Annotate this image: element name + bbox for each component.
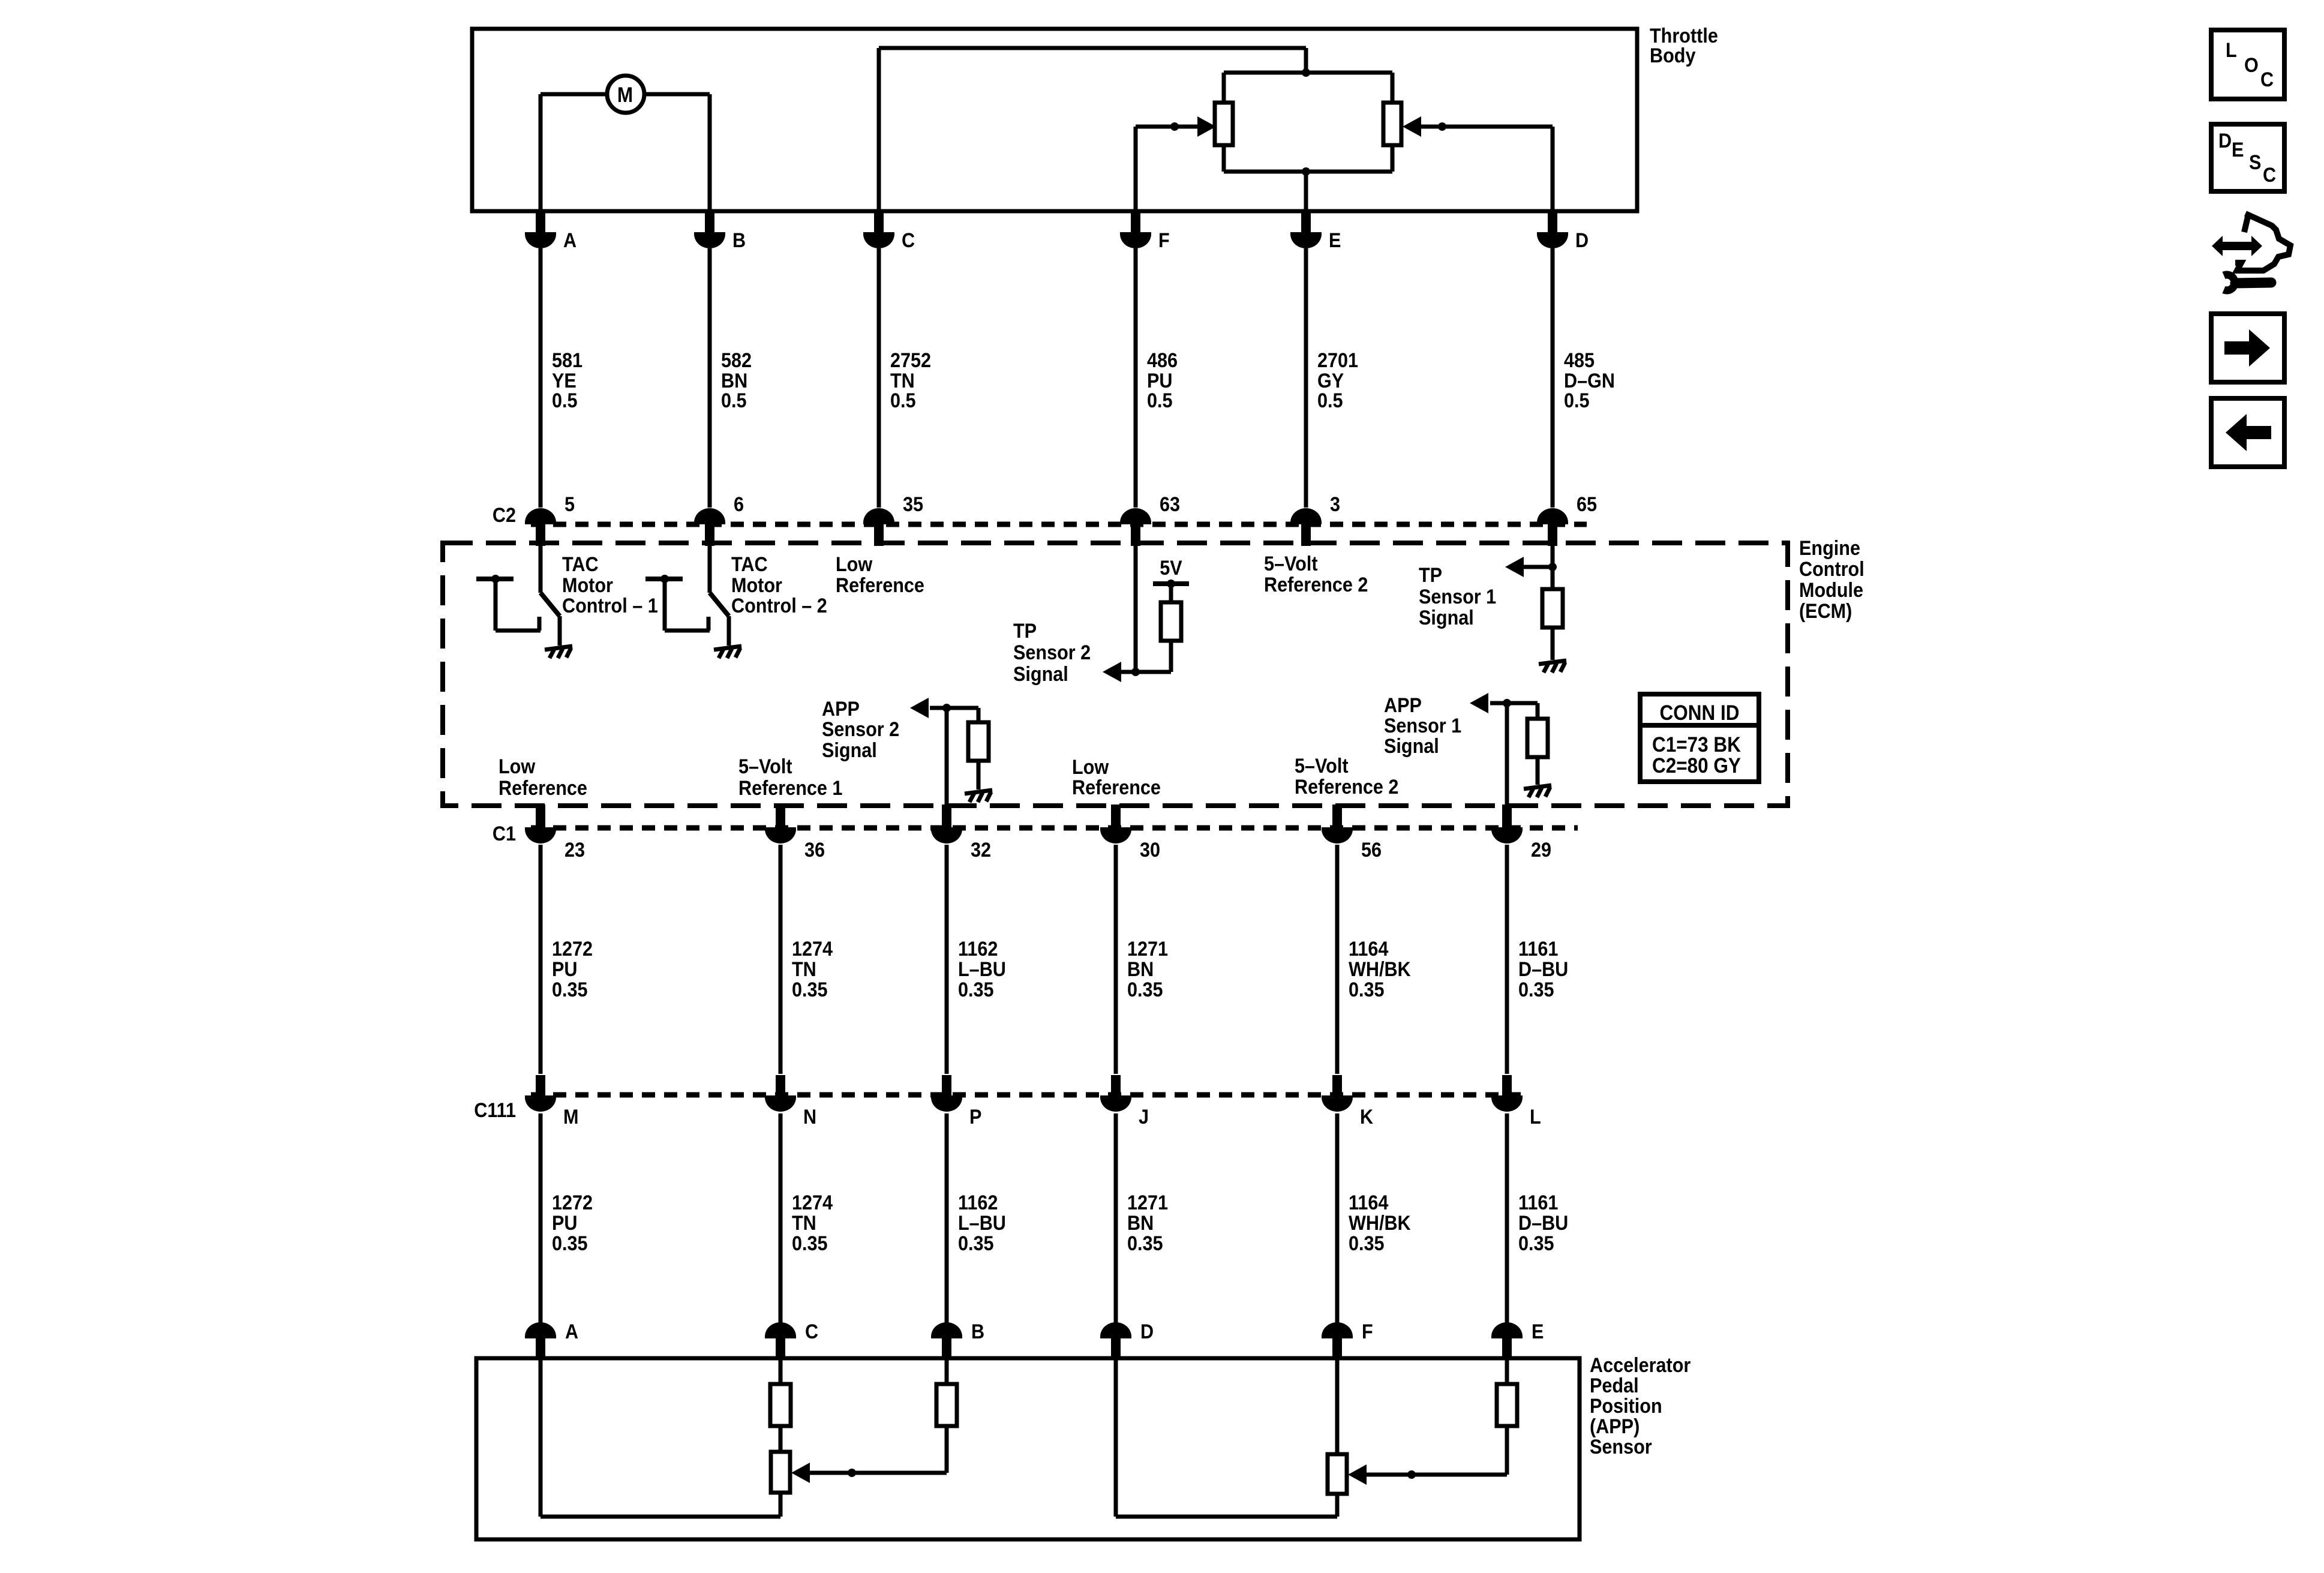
svg-text:32: 32 bbox=[971, 839, 991, 861]
wire C2 harness connector dotted line bbox=[531, 522, 1587, 527]
pin E throttle body connector bbox=[1301, 211, 1311, 233]
svg-text:Signal: Signal bbox=[1013, 663, 1068, 686]
wire TP sensor 1 signal from pin 65 bbox=[1551, 544, 1555, 589]
svg-text:D–BU: D–BU bbox=[1518, 958, 1568, 981]
pin E APP sensor connector bbox=[1491, 1322, 1523, 1338]
svg-text:TAC: TAC bbox=[562, 553, 599, 576]
svg-text:1274: 1274 bbox=[792, 938, 833, 960]
svg-text:Control – 1: Control – 1 bbox=[562, 595, 658, 617]
svg-text:1272: 1272 bbox=[552, 1191, 593, 1214]
svg-text:6: 6 bbox=[734, 493, 744, 516]
svg-text:Sensor: Sensor bbox=[1590, 1436, 1652, 1458]
svg-text:C: C bbox=[805, 1320, 818, 1343]
pin 30 ECM connector C1 bbox=[1111, 804, 1121, 828]
svg-text:M: M bbox=[617, 84, 633, 107]
svg-text:486: 486 bbox=[1147, 349, 1178, 372]
svg-text:Position: Position bbox=[1590, 1395, 1662, 1418]
pin A throttle body connector bbox=[536, 211, 545, 233]
svg-text:C: C bbox=[2260, 68, 2274, 91]
pin 56 ECM connector C1 bbox=[1332, 804, 1342, 828]
svg-text:D: D bbox=[1575, 229, 1589, 252]
pin A APP sensor connector bbox=[525, 1322, 556, 1338]
svg-text:C: C bbox=[902, 229, 915, 252]
icon connector view (housing outline) bbox=[2235, 214, 2290, 271]
svg-text:Reference: Reference bbox=[836, 574, 924, 597]
svg-text:Low: Low bbox=[836, 553, 873, 576]
svg-text:D: D bbox=[2218, 130, 2232, 152]
svg-text:5–Volt: 5–Volt bbox=[738, 755, 792, 778]
pin 35 ECM connector C2 bbox=[863, 508, 894, 524]
svg-text:1271: 1271 bbox=[1127, 938, 1168, 960]
svg-text:C2=80 GY: C2=80 GY bbox=[1652, 755, 1741, 778]
svg-text:Motor: Motor bbox=[562, 574, 613, 597]
resistor TP sensor 2 element bbox=[1391, 73, 1395, 103]
wire TP sensor 2 wiper to pin D bbox=[1551, 127, 1555, 211]
node TP sensor bottom rail junction bbox=[1224, 170, 1392, 174]
svg-text:(APP): (APP) bbox=[1590, 1415, 1640, 1438]
svg-text:0.5: 0.5 bbox=[721, 389, 747, 412]
pin 6 ECM connector C2 bbox=[694, 508, 725, 524]
svg-text:Module: Module bbox=[1799, 579, 1863, 602]
icon next button (right arrow) bbox=[2211, 314, 2284, 382]
pin B APP sensor connector bbox=[931, 1322, 962, 1338]
pin B throttle body connector bbox=[705, 211, 714, 233]
svg-text:Sensor 1: Sensor 1 bbox=[1419, 586, 1496, 608]
svg-text:Accelerator: Accelerator bbox=[1590, 1354, 1691, 1377]
wire motor right lead to pin B bbox=[645, 92, 710, 97]
pin 3 ECM connector C2 bbox=[1290, 508, 1322, 524]
resistor APP sensor 2 element bbox=[771, 1452, 790, 1493]
svg-text:C1=73 BK: C1=73 BK bbox=[1652, 734, 1741, 757]
wire APP sensor 1 signal from pin 29 bbox=[1505, 703, 1509, 806]
svg-text:E: E bbox=[2232, 139, 2244, 161]
wire APP sensor 1 low reference leg bbox=[1114, 1358, 1118, 1517]
wire low reference from pin C to TP sensors common bbox=[877, 48, 881, 211]
wire TP sensors low to pin E bbox=[1304, 172, 1308, 211]
svg-text:23: 23 bbox=[565, 839, 585, 861]
svg-text:0.5: 0.5 bbox=[890, 389, 916, 412]
svg-text:1274: 1274 bbox=[792, 1191, 833, 1214]
wire 1274 TN from ECM C1 to C111 bbox=[779, 845, 783, 1074]
svg-text:S: S bbox=[2249, 151, 2261, 174]
svg-text:485: 485 bbox=[1564, 349, 1595, 372]
wire 2701 GY from throttle body pin E to ECM C2 bbox=[1304, 248, 1308, 508]
wire 1162 L&#8211;BU from ECM C1 to C111 bbox=[945, 845, 949, 1074]
svg-text:Signal: Signal bbox=[1384, 735, 1439, 758]
svg-text:0.5: 0.5 bbox=[1564, 389, 1590, 412]
svg-text:BN: BN bbox=[1127, 1212, 1154, 1235]
svg-text:1162: 1162 bbox=[958, 1191, 998, 1214]
pin N connector C111 bbox=[776, 1075, 785, 1096]
svg-text:WH/BK: WH/BK bbox=[1349, 958, 1411, 981]
pin J connector C111 bbox=[1111, 1075, 1121, 1096]
svg-text:(ECM): (ECM) bbox=[1799, 600, 1852, 623]
wire 1164 WH/BK from C111 to APP sensor bbox=[1335, 1113, 1340, 1325]
svg-text:0.35: 0.35 bbox=[792, 978, 828, 1001]
wire 1161 D&#8211;BU from ECM C1 to C111 bbox=[1505, 845, 1509, 1074]
wire 1164 WH/BK from ECM C1 to C111 bbox=[1335, 845, 1340, 1074]
svg-text:F: F bbox=[1362, 1320, 1373, 1343]
svg-text:APP: APP bbox=[822, 698, 860, 721]
wire 582 BN from throttle body pin B to ECM C2 bbox=[708, 248, 712, 508]
svg-text:L–BU: L–BU bbox=[958, 1212, 1006, 1235]
svg-text:B: B bbox=[732, 229, 746, 252]
svg-text:Sensor 1: Sensor 1 bbox=[1384, 715, 1461, 737]
ground TAC motor control 1 bbox=[545, 646, 572, 658]
wire 1272 PU from C111 to APP sensor bbox=[539, 1113, 543, 1325]
svg-text:L: L bbox=[2226, 39, 2237, 62]
svg-text:J: J bbox=[1139, 1106, 1149, 1128]
pin C throttle body connector bbox=[874, 211, 884, 233]
resistor APP sensor 2 pull-down bbox=[977, 708, 981, 722]
resistor TP sensor 1 element bbox=[1222, 73, 1226, 103]
svg-text:Reference 2: Reference 2 bbox=[1295, 776, 1398, 798]
pin C APP sensor connector bbox=[765, 1322, 796, 1338]
svg-text:1164: 1164 bbox=[1349, 938, 1388, 960]
wire C1 harness connector dotted line bbox=[531, 825, 1578, 831]
pin 32 ECM connector C1 bbox=[942, 804, 951, 828]
pin P connector C111 bbox=[942, 1075, 951, 1096]
svg-text:35: 35 bbox=[903, 493, 923, 516]
CONN ID table bbox=[1640, 694, 1759, 782]
svg-text:O: O bbox=[2244, 54, 2259, 77]
svg-text:BN: BN bbox=[1127, 958, 1154, 981]
svg-text:Signal: Signal bbox=[822, 739, 877, 762]
pin 63 ECM connector C2 bbox=[1120, 508, 1151, 524]
pin 23 ECM connector C1 bbox=[536, 804, 545, 828]
svg-text:0.35: 0.35 bbox=[1349, 1232, 1385, 1255]
svg-text:L: L bbox=[1530, 1106, 1541, 1128]
resistor APP sensor 1 signal series bbox=[1505, 1358, 1509, 1384]
icon connector view (double arrow) bbox=[2212, 236, 2262, 256]
svg-text:65: 65 bbox=[1577, 493, 1597, 516]
wire APP sensor 2 low reference leg bbox=[539, 1358, 543, 1517]
wire TP sensor 1 wiper from pin F bbox=[1134, 127, 1138, 211]
pin F APP sensor connector bbox=[1322, 1322, 1353, 1338]
svg-text:5–Volt: 5–Volt bbox=[1264, 553, 1318, 575]
svg-text:Reference 1: Reference 1 bbox=[738, 777, 842, 800]
pin 36 ECM connector C1 bbox=[776, 804, 785, 828]
wire 485 D&#8211;GN from throttle body pin D to ECM C2 bbox=[1551, 248, 1555, 508]
svg-text:1162: 1162 bbox=[958, 938, 998, 960]
svg-text:N: N bbox=[803, 1106, 816, 1128]
svg-text:B: B bbox=[971, 1320, 984, 1343]
svg-text:Pedal: Pedal bbox=[1590, 1374, 1639, 1397]
svg-text:Reference: Reference bbox=[1072, 776, 1161, 799]
wire 1161 D&#8211;BU from C111 to APP sensor bbox=[1505, 1113, 1509, 1325]
svg-text:582: 582 bbox=[721, 349, 752, 372]
svg-text:Reference 2: Reference 2 bbox=[1264, 574, 1368, 596]
svg-text:56: 56 bbox=[1361, 839, 1382, 861]
svg-text:WH/BK: WH/BK bbox=[1349, 1212, 1411, 1235]
pin D APP sensor connector bbox=[1100, 1322, 1131, 1338]
wire 1271 BN from C111 to APP sensor bbox=[1114, 1113, 1118, 1325]
svg-text:Engine: Engine bbox=[1799, 537, 1860, 560]
ground TAC motor control 2 bbox=[714, 646, 741, 658]
svg-text:0.35: 0.35 bbox=[552, 1232, 588, 1255]
wire motor left lead to pin A bbox=[541, 92, 608, 97]
wire 1271 BN from ECM C1 to C111 bbox=[1114, 845, 1118, 1074]
resistor APP sensor 1 element bbox=[1335, 1358, 1340, 1454]
svg-text:C: C bbox=[2263, 164, 2276, 187]
svg-text:Reference: Reference bbox=[499, 777, 587, 800]
resistor APP sensor 2 series (5-volt ref 1 leg) bbox=[779, 1358, 783, 1384]
pin F throttle body connector bbox=[1131, 211, 1140, 233]
svg-text:TN: TN bbox=[792, 1212, 816, 1235]
pin M connector C111 bbox=[536, 1075, 545, 1096]
svg-text:E: E bbox=[1532, 1320, 1544, 1343]
svg-text:TP: TP bbox=[1013, 620, 1037, 643]
svg-text:Body: Body bbox=[1650, 44, 1695, 67]
icon connector view (wrench) bbox=[2224, 275, 2235, 290]
svg-text:Control – 2: Control – 2 bbox=[731, 595, 827, 617]
ground TP sensor 1 resistor bbox=[1539, 661, 1566, 673]
svg-text:APP: APP bbox=[1384, 694, 1422, 717]
resistor APP sensor 2 signal series bbox=[945, 1358, 949, 1384]
transistor TAC motor control 1 driver bbox=[539, 544, 543, 593]
svg-text:0.35: 0.35 bbox=[958, 978, 994, 1001]
svg-text:PU: PU bbox=[552, 1212, 577, 1235]
svg-text:Low: Low bbox=[1072, 756, 1109, 779]
wire APP sensor 1 wiper bbox=[1367, 1473, 1507, 1477]
svg-text:K: K bbox=[1360, 1106, 1374, 1128]
pin 65 ECM connector C2 bbox=[1537, 508, 1568, 524]
svg-text:0.35: 0.35 bbox=[552, 978, 588, 1001]
svg-text:PU: PU bbox=[552, 958, 577, 981]
svg-text:TP: TP bbox=[1419, 564, 1442, 587]
svg-text:TN: TN bbox=[792, 958, 816, 981]
svg-text:E: E bbox=[1329, 229, 1341, 252]
svg-text:0.5: 0.5 bbox=[1147, 389, 1173, 412]
svg-text:CONN ID: CONN ID bbox=[1660, 702, 1740, 725]
wire APP sensor 2 wiper bbox=[810, 1471, 947, 1475]
accelerator pedal position APP sensor box bbox=[476, 1358, 1580, 1539]
svg-text:0.5: 0.5 bbox=[552, 389, 578, 412]
svg-text:0.35: 0.35 bbox=[1518, 1232, 1554, 1255]
svg-text:2701: 2701 bbox=[1317, 349, 1358, 372]
icon back button (left arrow) bbox=[2211, 398, 2284, 467]
svg-text:TAC: TAC bbox=[731, 553, 768, 576]
svg-text:Signal: Signal bbox=[1419, 607, 1474, 629]
pin L connector C111 bbox=[1502, 1075, 1512, 1096]
svg-text:0.35: 0.35 bbox=[792, 1232, 828, 1255]
engine control module ECM dashed box bbox=[443, 543, 1788, 806]
transistor TAC motor control 2 driver bbox=[708, 544, 712, 593]
svg-text:1272: 1272 bbox=[552, 938, 593, 960]
icon DESC button bbox=[2211, 124, 2284, 191]
svg-text:0.35: 0.35 bbox=[1127, 978, 1163, 1001]
svg-text:1161: 1161 bbox=[1518, 1191, 1558, 1214]
svg-text:A: A bbox=[563, 229, 577, 252]
svg-text:D: D bbox=[1140, 1320, 1154, 1343]
icon LOC button bbox=[2211, 30, 2284, 99]
svg-text:F: F bbox=[1158, 229, 1170, 252]
svg-text:C1: C1 bbox=[493, 822, 516, 845]
svg-text:0.5: 0.5 bbox=[1317, 389, 1343, 412]
resistor TP sensor 1 pull-down bbox=[1542, 589, 1563, 628]
node TP sensor top rail junction bbox=[1224, 71, 1392, 75]
wire 581 YE from throttle body pin A to ECM C2 bbox=[539, 248, 543, 508]
wire 486 PU from throttle body pin F to ECM C2 bbox=[1134, 248, 1138, 508]
pin 29 ECM connector C1 bbox=[1502, 804, 1512, 828]
wire 1272 PU from ECM C1 to C111 bbox=[539, 845, 543, 1074]
svg-text:Motor: Motor bbox=[731, 574, 782, 597]
ground APP sensor 2 resistor bbox=[965, 790, 992, 802]
svg-text:36: 36 bbox=[804, 839, 825, 861]
svg-text:1161: 1161 bbox=[1518, 938, 1558, 960]
throttle body box bbox=[472, 29, 1637, 211]
svg-text:30: 30 bbox=[1140, 839, 1160, 861]
svg-text:Control: Control bbox=[1799, 558, 1864, 581]
svg-text:1271: 1271 bbox=[1127, 1191, 1168, 1214]
svg-text:0.35: 0.35 bbox=[1349, 978, 1385, 1001]
svg-text:P: P bbox=[969, 1106, 981, 1128]
svg-text:5V: 5V bbox=[1160, 557, 1182, 580]
svg-text:C2: C2 bbox=[493, 504, 516, 527]
svg-text:581: 581 bbox=[552, 349, 582, 372]
svg-text:2752: 2752 bbox=[890, 349, 931, 372]
svg-text:0.35: 0.35 bbox=[958, 1232, 994, 1255]
pin 5 ECM connector C2 bbox=[525, 508, 556, 524]
svg-text:0.35: 0.35 bbox=[1518, 978, 1554, 1001]
svg-text:M: M bbox=[563, 1106, 578, 1128]
svg-text:C111: C111 bbox=[474, 1099, 516, 1122]
svg-text:3: 3 bbox=[1330, 493, 1340, 516]
svg-text:5: 5 bbox=[565, 493, 575, 516]
pin D throttle body connector bbox=[1548, 211, 1557, 233]
svg-text:Low: Low bbox=[499, 755, 536, 778]
svg-text:A: A bbox=[565, 1320, 578, 1343]
wire C111 inline connector dotted line bbox=[531, 1092, 1530, 1098]
wire 1162 L&#8211;BU from C111 to APP sensor bbox=[945, 1113, 949, 1325]
wire TP sensor 2 signal from pin 63 bbox=[1134, 544, 1138, 672]
resistor TP sensor 2 pull-up bbox=[1169, 584, 1173, 602]
svg-text:0.35: 0.35 bbox=[1127, 1232, 1163, 1255]
wire 2752 TN from throttle body pin C to ECM C2 bbox=[877, 248, 881, 508]
svg-text:1164: 1164 bbox=[1349, 1191, 1388, 1214]
wire APP sensor 2 signal from pin 32 bbox=[945, 708, 949, 806]
svg-text:29: 29 bbox=[1531, 839, 1551, 861]
pin K connector C111 bbox=[1332, 1075, 1342, 1096]
svg-text:5–Volt: 5–Volt bbox=[1295, 755, 1349, 778]
wire 1274 TN from C111 to APP sensor bbox=[779, 1113, 783, 1325]
svg-text:Sensor 2: Sensor 2 bbox=[822, 718, 899, 741]
svg-text:Sensor 2: Sensor 2 bbox=[1013, 641, 1091, 664]
svg-text:63: 63 bbox=[1160, 493, 1180, 516]
motor M (TAC motor) bbox=[607, 76, 644, 113]
svg-text:D–BU: D–BU bbox=[1518, 1212, 1568, 1235]
svg-text:L–BU: L–BU bbox=[958, 958, 1006, 981]
ground APP sensor 1 resistor bbox=[1524, 785, 1551, 797]
resistor APP sensor 1 pull-down bbox=[1536, 703, 1540, 719]
